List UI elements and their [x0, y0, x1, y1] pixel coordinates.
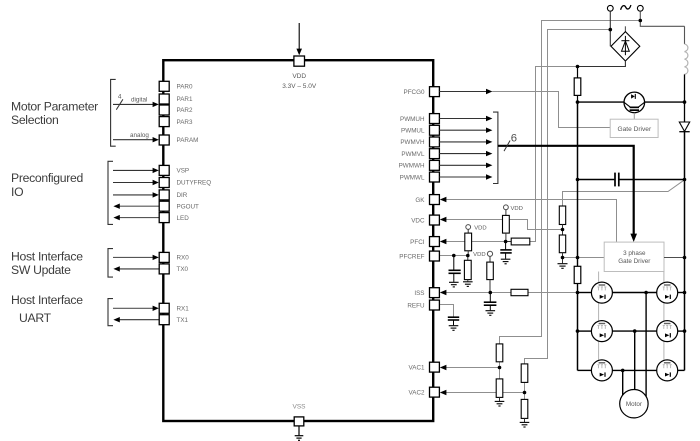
bracket SW update group	[108, 249, 113, 278]
ground PFCREF cap	[449, 282, 459, 287]
ground PFCREF lower	[463, 282, 473, 287]
wire VDC sense tap	[444, 220, 563, 230]
wire motor phase W	[622, 370, 624, 396]
arrowhead into VDC	[440, 217, 447, 222]
arrow out of TX1	[113, 317, 159, 322]
resistor PFC shunt upper	[574, 67, 581, 103]
svg-text:VAC2: VAC2	[409, 389, 425, 396]
rail ground x577	[577, 102, 579, 257]
box Gate Driver (PFC)	[610, 119, 658, 137]
arrow into RX0	[113, 255, 159, 260]
resistor VAC1 lower	[496, 368, 503, 402]
svg-text:Gate Driver: Gate Driver	[618, 258, 650, 265]
bridge diode symbol	[621, 36, 629, 55]
pin PGOUT	[159, 201, 169, 211]
label Motor Parameter Selection	[11, 99, 98, 127]
capacitor PFCI filter	[500, 242, 511, 259]
arrowhead into GK	[440, 197, 447, 202]
pin TX1	[159, 315, 169, 325]
ground VSS	[295, 426, 304, 440]
pin RX1	[159, 303, 169, 313]
svg-text:LED: LED	[177, 215, 190, 222]
pin REFU	[430, 300, 440, 310]
wire 6-PWM bus	[498, 146, 634, 234]
pin VDC	[430, 215, 440, 225]
pin PWMWL	[430, 172, 440, 182]
wire ISS line	[444, 292, 511, 294]
wire PFCI sense line	[444, 241, 506, 243]
svg-text:analog: analog	[130, 132, 149, 139]
ground ISS filter	[486, 311, 496, 316]
svg-text:VDD: VDD	[511, 206, 523, 212]
junction dots power stage	[561, 19, 687, 373]
svg-text:VSS: VSS	[292, 403, 306, 410]
junction dots middle networks	[452, 240, 526, 395]
pin LED	[159, 213, 169, 223]
resistor VAC2 upper	[521, 364, 528, 393]
wire motor phase V	[634, 331, 636, 390]
arrowhead into VAC1	[440, 365, 447, 370]
ground VAC2	[520, 422, 530, 427]
svg-text:PARAM: PARAM	[177, 137, 199, 144]
svg-text:PWMUL: PWMUL	[401, 128, 425, 135]
wire PFCREF line	[439, 255, 467, 257]
wire inverter row1	[578, 292, 685, 294]
svg-text:PAR0: PAR0	[177, 83, 193, 90]
wire inverter row3	[578, 369, 685, 371]
wire VAC1 line	[444, 367, 500, 369]
pin DUTYFREQ	[159, 178, 169, 188]
capacitor REFU	[448, 317, 459, 325]
arrow PWMWH out	[439, 163, 492, 168]
resistor VDC divider upper	[559, 206, 565, 230]
svg-text:PWMUH: PWMUH	[400, 116, 425, 123]
AC terminal L	[607, 5, 613, 11]
svg-text:PWMVH: PWMVH	[400, 139, 425, 146]
arrow out of PGOUT	[113, 204, 159, 209]
svg-text:TX0: TX0	[177, 266, 189, 273]
ground REFU	[449, 326, 459, 331]
pin PWMUL	[430, 125, 440, 135]
arrow PWMVL out	[439, 151, 492, 156]
svg-text:UART: UART	[19, 311, 52, 325]
pin PFCI	[430, 237, 440, 247]
resistor ISS series	[511, 289, 528, 295]
pin TX0	[159, 264, 169, 274]
svg-text:Host Interface: Host Interface	[11, 250, 83, 264]
resistor VAC1 upper	[496, 344, 503, 368]
bus width 4 slash	[116, 99, 123, 109]
svg-text:IO: IO	[11, 185, 23, 199]
arrow into DIR	[113, 192, 159, 197]
svg-text:digital: digital	[131, 97, 147, 104]
pin VSP	[159, 165, 169, 175]
arrow PWMVH out	[439, 139, 492, 144]
transistor Q4 inverter VL	[657, 321, 678, 342]
svg-text:PAR1: PAR1	[177, 96, 193, 103]
svg-text:PWMWH: PWMWH	[399, 163, 425, 170]
left pin labels	[177, 83, 212, 324]
ground PFCI filter	[501, 259, 511, 264]
svg-text:Selection: Selection	[11, 113, 58, 127]
wire gate stubs right column	[663, 272, 665, 361]
pin ISS	[430, 288, 440, 298]
bus width 6 slash	[504, 141, 510, 152]
svg-text:VAC1: VAC1	[409, 364, 425, 371]
svg-text:PFCREF: PFCREF	[399, 253, 424, 260]
label Host Interface SW Update	[11, 250, 83, 278]
pin PWMVL	[430, 149, 440, 159]
supply VDD circle at PFCREF pullup	[466, 225, 487, 234]
svg-text:PAR2: PAR2	[177, 107, 193, 114]
transistor Q2 inverter UL	[657, 282, 678, 303]
resistor VAC2 lower	[521, 393, 528, 423]
arrowhead into ISS	[440, 290, 447, 295]
arrow into VSP	[113, 168, 159, 173]
svg-text:PAR3: PAR3	[177, 119, 193, 126]
svg-text:Preconfigured: Preconfigured	[11, 171, 83, 185]
box 3 phase Gate Driver	[604, 242, 664, 271]
MCU block outline	[163, 60, 433, 421]
rail source x577 lower	[577, 293, 579, 371]
SECTION: wires-gray	[439, 21, 684, 393]
VDD supply arrow	[296, 23, 302, 55]
wire bridge AC2 stub	[624, 26, 626, 32]
rail DC plus upper	[684, 74, 686, 122]
svg-text:RX1: RX1	[177, 306, 190, 313]
motor M	[620, 390, 648, 418]
arrow analog into PARAM	[113, 137, 159, 142]
AC tilde symbol	[621, 5, 631, 10]
pin VDD	[294, 56, 305, 66]
pin PAR2	[159, 105, 169, 115]
svg-text:GK: GK	[415, 197, 425, 204]
pin PAR0	[159, 81, 169, 91]
wire gate stubs left column	[598, 272, 600, 361]
svg-text:DUTYFREQ: DUTYFREQ	[177, 180, 212, 187]
svg-text:TX1: TX1	[177, 317, 189, 324]
wire motor phase U	[645, 293, 647, 397]
svg-text:Host Interface: Host Interface	[11, 293, 83, 307]
svg-text:3 phase: 3 phase	[623, 250, 646, 257]
ground VDC divider	[558, 264, 568, 269]
svg-text:PFCG0: PFCG0	[404, 89, 425, 96]
arrow PWMWL out	[439, 174, 492, 179]
wire ISS to shunt	[528, 292, 578, 294]
svg-text:VDD: VDD	[292, 73, 306, 80]
svg-text:SW Update: SW Update	[11, 263, 71, 277]
ground VAC1	[495, 401, 505, 406]
transistor Q5 inverter WH	[591, 360, 612, 381]
wire PFC gate stub	[633, 113, 635, 120]
transistor Q1 inverter UH	[591, 282, 612, 303]
arrow into DUTYFREQ	[113, 180, 159, 185]
pin PWMVH	[430, 137, 440, 147]
label Preconfigured IO	[11, 171, 83, 199]
wire PFCI feedback vertical	[530, 67, 578, 242]
AC terminal N	[637, 5, 643, 11]
arrow PWMUL out	[439, 128, 492, 133]
inductor PFC boost	[685, 44, 688, 74]
resistor PFCREF pullup	[465, 233, 472, 255]
capacitor DC bus	[615, 173, 619, 187]
wire VAC1 feedback to AC terminal	[500, 21, 641, 344]
wire VAC2 line	[444, 392, 525, 394]
SECTION: mcu	[163, 23, 433, 440]
svg-text:VSP: VSP	[177, 168, 190, 175]
wire PFC switch row	[578, 101, 685, 103]
pin PAR3	[159, 117, 169, 127]
capacitor ISS filter	[484, 293, 497, 311]
svg-text:VDC: VDC	[411, 217, 425, 224]
wire PFCG0 to PFC gate driver	[492, 92, 610, 128]
pin PAR1	[159, 94, 169, 104]
wire DC-bus to VDC divider (diagonal)	[563, 180, 685, 206]
svg-text:Motor Parameter: Motor Parameter	[11, 99, 98, 113]
supply VDD circle at ISS bias	[473, 251, 492, 262]
svg-text:4: 4	[118, 94, 122, 101]
svg-text:PWMWL: PWMWL	[400, 174, 425, 181]
supply VDD circle at PFCI pullup	[504, 205, 523, 215]
wire VAC2 feedback to AC terminal	[525, 30, 611, 364]
pin PWMUH	[430, 114, 440, 124]
transistor PFC switch	[624, 92, 645, 113]
pin GK	[430, 195, 440, 205]
svg-text:Motor: Motor	[626, 401, 642, 408]
bracket preconfigured IO group	[108, 161, 113, 224]
arrowhead into VAC2	[440, 390, 447, 395]
svg-text:REFU: REFU	[407, 302, 425, 309]
pin PWMWH	[430, 160, 440, 170]
resistor VDC divider lower	[559, 230, 565, 264]
pin VAC1	[430, 362, 440, 372]
resistor ISS bias	[487, 262, 494, 292]
bracket PWM bundle	[493, 112, 498, 183]
SECTION: rightnets	[399, 87, 637, 427]
wire 3-phase driver COM	[563, 257, 605, 259]
wire inverter row2	[578, 330, 685, 332]
svg-text:VDD: VDD	[473, 252, 485, 258]
svg-text:PWMVL: PWMVL	[401, 151, 425, 158]
rail DC plus lower	[684, 132, 686, 371]
bracket UART group	[108, 299, 113, 326]
wire bridge minus stub	[578, 61, 626, 67]
bridge rectifier	[611, 32, 640, 61]
right pin labels	[399, 89, 426, 397]
arrow out of TX0	[113, 266, 159, 271]
transistor Q6 inverter WL	[657, 360, 678, 381]
svg-text:RX0: RX0	[177, 255, 190, 262]
SECTION: powerstage	[558, 5, 690, 418]
capacitor PFCREF	[449, 256, 461, 282]
wire AC N to inductor	[640, 11, 684, 26]
svg-text:DIR: DIR	[177, 192, 188, 199]
wire AC N rail to inductor top	[684, 26, 686, 44]
arrow out of LED	[113, 215, 159, 220]
resistor PFCI pullup	[503, 215, 510, 241]
wire GK to 3-phase gate driver	[444, 200, 617, 243]
bracket motor parameter group	[111, 79, 116, 146]
diode PFC boost	[679, 122, 689, 132]
arrow into RX1	[113, 306, 159, 311]
svg-text:VDD: VDD	[474, 225, 486, 231]
svg-text:ISS: ISS	[414, 290, 424, 297]
pin VSS	[294, 417, 304, 426]
arrow digital bus into PAR pins	[113, 102, 159, 107]
arrowhead 6-PWM bus into 3-phase driver	[630, 234, 637, 242]
resistor PFCI series	[506, 238, 530, 245]
junction dot rail at driver	[683, 256, 687, 260]
arrowhead into PFCI	[440, 239, 447, 244]
transistor Q3 inverter VH	[591, 321, 612, 342]
resistor PFCREF lower	[464, 256, 471, 282]
pin VAC2	[430, 387, 440, 397]
pin PFCREF	[430, 251, 440, 261]
svg-text:6: 6	[511, 133, 517, 145]
SECTION: leftside	[11, 79, 211, 325]
resistor inverter shunt	[574, 258, 581, 293]
svg-text:3.3V – 5.0V: 3.3V – 5.0V	[282, 83, 317, 90]
svg-text:PFCI: PFCI	[410, 239, 425, 246]
pin PFCG0	[430, 87, 440, 97]
wire DC bus cap right	[620, 179, 685, 181]
pin DIR	[159, 190, 169, 200]
arrow PFCG0 out	[439, 89, 492, 94]
wire REFU to cap	[439, 305, 453, 317]
pin RX0	[159, 252, 169, 262]
wire AC L to bridge	[609, 11, 611, 46]
wire 3-phase driver to DC rail	[664, 257, 685, 259]
svg-text:Gate Driver: Gate Driver	[617, 126, 652, 133]
pin PARAM	[159, 135, 169, 145]
wire DC bus cap left	[578, 179, 615, 181]
arrow PWMUH out	[439, 116, 492, 121]
label Host Interface UART	[11, 293, 83, 325]
svg-text:PGOUT: PGOUT	[177, 203, 200, 210]
